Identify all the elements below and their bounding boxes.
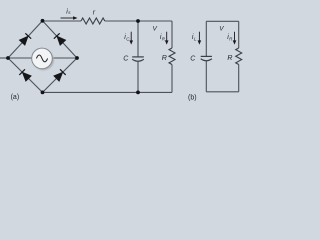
svg-text:R: R (162, 55, 167, 62)
wire: top rail right of resistor r (105, 20, 172, 22)
wire: capacitor branch lower (137, 61, 139, 92)
wire: b right branch upper (238, 21, 240, 48)
wire: circuit a right branch lower (171, 65, 173, 93)
resistor R (circuit b) (236, 48, 242, 65)
resistor r (81, 18, 105, 24)
wire: b right branch lower (238, 65, 240, 92)
svg-text:R: R (227, 55, 232, 62)
wire: b top rail (206, 20, 238, 22)
wire: b bottom rail (206, 91, 238, 93)
node dot: bridge left vertex (6, 56, 10, 60)
wire: b left branch lower (205, 61, 207, 92)
wire: bridge edge lower-right (43, 58, 78, 92)
capacitor C (circuit a) (132, 57, 144, 61)
wire: bridge horizontal (through source) (8, 57, 77, 59)
wire: bridge edge lower-left (8, 58, 43, 92)
wire: capacitor branch upper (137, 21, 139, 57)
current arrow i_R (circuit a) (165, 32, 169, 45)
wire: circuit a right branch upper (171, 21, 173, 48)
current arrow i_s (61, 16, 78, 20)
diode D1 (left vertex to top) (19, 33, 31, 45)
svg-text:V: V (153, 26, 158, 33)
wire: top rail left of resistor r (43, 20, 82, 22)
ac source V_s (32, 48, 53, 69)
current arrow i_C (129, 32, 133, 45)
circuit b wires (206, 21, 238, 92)
wire: circuit a bottom rail (43, 91, 173, 93)
capacitor C (circuit b) (201, 56, 212, 60)
ac source shadow (33, 50, 54, 70)
node dot: capacitor branch top (136, 19, 140, 23)
node dot: bridge top vertex (41, 19, 45, 23)
wire: left stub (0, 57, 8, 59)
node dot: capacitor branch bottom (136, 91, 140, 95)
diode D3 (bottom vertex to left) (19, 69, 31, 81)
wire: b left branch upper (205, 21, 207, 56)
svg-text:(b): (b) (188, 94, 197, 101)
current arrow i_L (198, 32, 202, 45)
sine symbol (36, 55, 47, 62)
node dot: bridge right vertex (75, 56, 79, 60)
node dot: bridge bottom vertex (41, 91, 45, 95)
diode D2 (right vertex to top) (54, 33, 66, 45)
resistor R (circuit a) (169, 48, 175, 65)
svg-text:V: V (219, 26, 224, 33)
wire: bridge edge upper-left (8, 21, 43, 58)
svg-text:(a): (a) (11, 94, 20, 101)
wire: bridge edge upper-right (43, 21, 78, 58)
diode D4 (bottom vertex to right) (54, 69, 66, 81)
current arrow i_R (circuit b) (233, 32, 237, 45)
